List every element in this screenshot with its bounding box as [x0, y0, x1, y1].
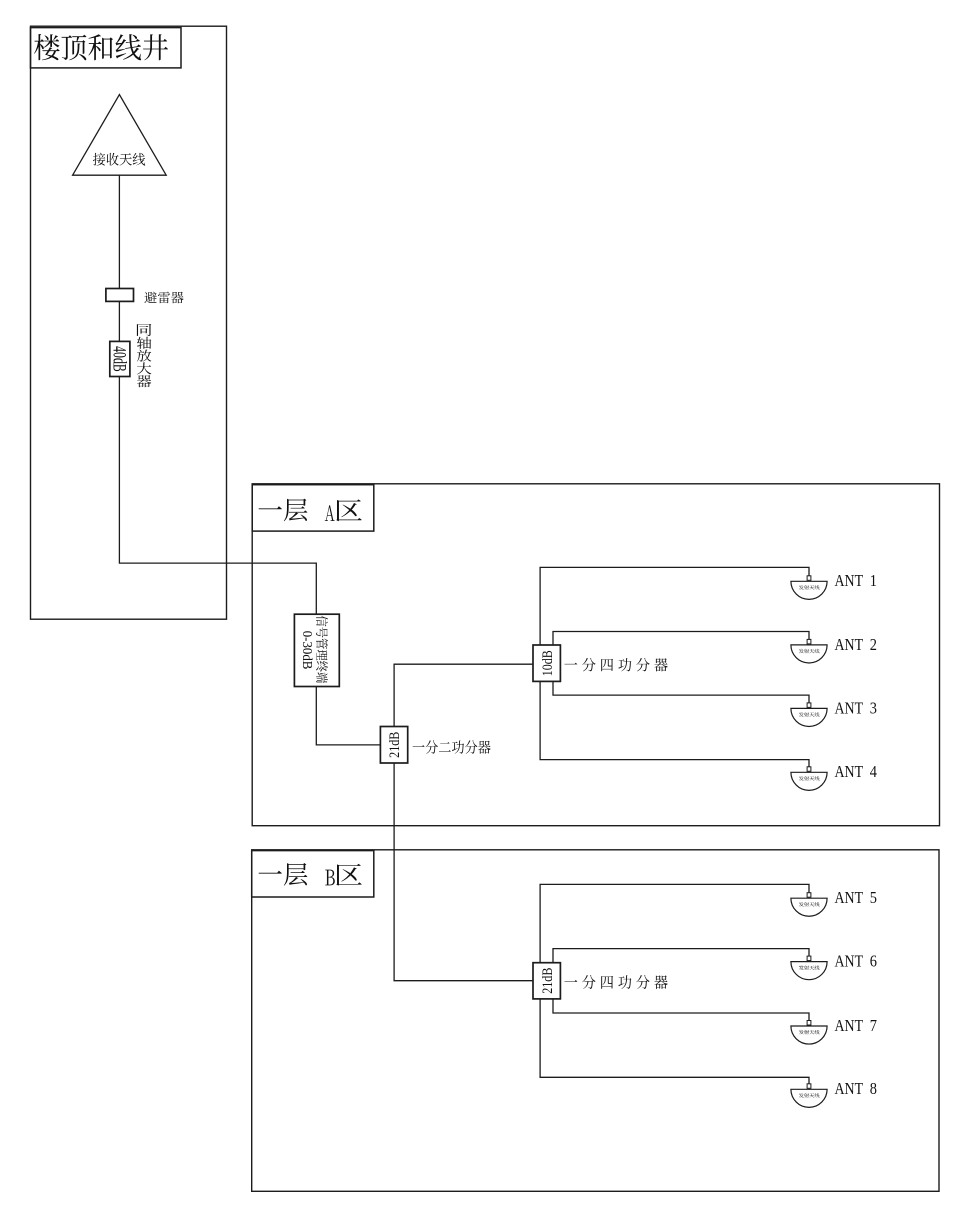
svg-text:ANT: ANT: [835, 635, 864, 654]
svg-text:ANT: ANT: [835, 571, 864, 590]
svg-text:ANT: ANT: [835, 1016, 864, 1035]
svg-text:ANT: ANT: [835, 952, 864, 971]
svg-text:ANT: ANT: [835, 698, 864, 717]
svg-text:2: 2: [870, 635, 877, 654]
svg-text:0-30dB: 0-30dB: [299, 631, 314, 670]
svg-text:21dB: 21dB: [387, 732, 403, 758]
svg-text:7: 7: [870, 1016, 877, 1035]
svg-text:ANT: ANT: [835, 888, 864, 907]
svg-text:21dB: 21dB: [540, 968, 556, 994]
svg-text:3: 3: [870, 698, 877, 717]
svg-text:8: 8: [870, 1079, 877, 1098]
svg-text:ANT: ANT: [835, 762, 864, 781]
svg-text:6: 6: [870, 952, 877, 971]
svg-text:4: 4: [870, 762, 877, 781]
svg-text:1: 1: [870, 571, 877, 590]
svg-text:ANT: ANT: [835, 1079, 864, 1098]
svg-text:40dB: 40dB: [109, 346, 129, 372]
svg-text:10dB: 10dB: [540, 650, 556, 676]
svg-text:5: 5: [870, 888, 877, 907]
